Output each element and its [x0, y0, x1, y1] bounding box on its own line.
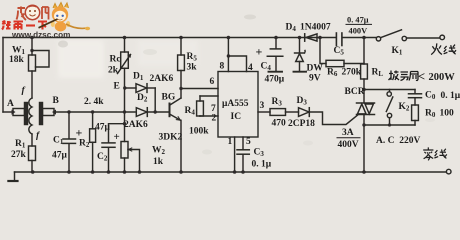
- svg-text:K2: K2: [399, 102, 410, 113]
- IC box U1: [218, 72, 258, 138]
- svg-text:www.dzsc.com: www.dzsc.com: [11, 31, 70, 40]
- wire BG collector: [180, 71, 182, 99]
- svg-text:9V: 9V: [309, 74, 321, 84]
- svg-text:6: 6: [210, 77, 215, 87]
- svg-text:27k: 27k: [11, 150, 27, 160]
- svg-text:270k: 270k: [342, 68, 362, 78]
- svg-text:5: 5: [246, 137, 251, 147]
- transducer B: [40, 103, 43, 125]
- wire R1 to rail: [31, 161, 33, 173]
- svg-text:D1: D1: [133, 72, 144, 83]
- svg-text:μA555: μA555: [222, 99, 249, 109]
- svg-text:100k: 100k: [189, 127, 209, 137]
- terminal neutral: [446, 169, 451, 174]
- diode D4: [304, 34, 306, 41]
- svg-text:0. 47μ: 0. 47μ: [347, 16, 369, 25]
- svg-text:R2: R2: [79, 139, 90, 150]
- resistor R3: [270, 109, 286, 116]
- svg-text:D4: D4: [286, 23, 297, 34]
- wire pin6: [181, 88, 218, 90]
- wire W1 column top: [31, 38, 33, 56]
- wire pin2 stub: [200, 115, 218, 117]
- svg-text:E: E: [114, 82, 120, 92]
- svg-text:470: 470: [272, 119, 287, 129]
- svg-text:R1: R1: [15, 139, 26, 150]
- svg-text:<: <: [418, 70, 425, 84]
- wire to live terminal: [407, 37, 440, 39]
- svg-text:200W: 200W: [429, 72, 456, 83]
- svg-text:K1: K1: [392, 46, 403, 57]
- wire pin8: [227, 38, 229, 72]
- svg-text:400V: 400V: [349, 27, 368, 36]
- fraction line 3A/400V: [337, 137, 361, 139]
- svg-text:C0: C0: [425, 91, 436, 102]
- wire pin4: [228, 56, 246, 72]
- wire BG emitter to rail: [180, 120, 182, 172]
- svg-text:C5: C5: [334, 46, 345, 57]
- svg-text:C3: C3: [254, 148, 265, 159]
- wire pin3: [258, 111, 270, 113]
- wire mid row right of D2: [147, 111, 169, 113]
- svg-text:IC: IC: [231, 112, 242, 122]
- svg-text:1N4007: 1N4007: [300, 23, 331, 33]
- diode D1: [125, 87, 137, 89]
- wire D3 to BCR gate: [309, 112, 357, 125]
- svg-text:C1: C1: [53, 136, 64, 147]
- svg-text:+: +: [114, 131, 120, 143]
- resistor R2: [92, 112, 94, 129]
- resistor Rc: [124, 38, 126, 53]
- capacitor C5: [335, 33, 337, 46]
- svg-text:RL: RL: [372, 68, 384, 79]
- terminal live: [440, 35, 445, 40]
- svg-text:+: +: [256, 45, 263, 59]
- svg-text:B: B: [53, 96, 60, 106]
- svg-text:47μ: 47μ: [52, 151, 68, 161]
- wire pin5: [242, 137, 244, 149]
- transistor BG: [169, 104, 171, 117]
- svg-text:2. 4k: 2. 4k: [84, 97, 104, 107]
- wire W1 to transducer: [31, 71, 33, 98]
- svg-text:R6: R6: [327, 68, 338, 79]
- hanzi huoxian (live wire): [431, 43, 456, 54]
- watermark weiku yixia red text: [2, 21, 47, 30]
- resistor R5: [180, 38, 182, 56]
- wire top rail: [3, 37, 336, 39]
- capacitor C3: [237, 149, 249, 151]
- svg-text:D3: D3: [297, 96, 308, 107]
- svg-text:7: 7: [211, 104, 216, 114]
- resistor RL: [363, 38, 365, 65]
- svg-text:C4: C4: [261, 62, 272, 73]
- svg-text:1: 1: [228, 137, 233, 147]
- svg-text:R0: R0: [425, 109, 436, 120]
- svg-text:4: 4: [248, 63, 253, 73]
- svg-text:18k: 18k: [9, 55, 25, 65]
- wire BCR bottom branch: [364, 124, 415, 126]
- svg-text:3k: 3k: [187, 63, 198, 73]
- watermark logo zhaopianpian: [17, 5, 49, 20]
- svg-text:3DK2: 3DK2: [159, 133, 183, 143]
- svg-text:D2: D2: [137, 93, 148, 104]
- svg-text:A: A: [7, 99, 14, 109]
- resistor R4: [199, 96, 201, 116]
- svg-text:BCR: BCR: [345, 87, 365, 97]
- svg-text:+: +: [76, 126, 83, 140]
- capacitor C2: [109, 124, 125, 143]
- wire top rail right of C5: [343, 37, 377, 39]
- svg-text:R3: R3: [272, 97, 283, 108]
- svg-text:W2: W2: [152, 146, 166, 157]
- switch K2 branch: [364, 89, 415, 91]
- resistor R0: [412, 105, 419, 121]
- transducer A: [13, 109, 25, 116]
- svg-text:8: 8: [220, 62, 225, 72]
- svg-text:2k: 2k: [108, 66, 119, 76]
- svg-text:400V: 400V: [338, 140, 359, 150]
- svg-text:R5: R5: [187, 52, 198, 63]
- diode D2: [136, 108, 147, 117]
- wire to transducer A: [3, 111, 13, 113]
- svg-text:3A: 3A: [342, 128, 354, 138]
- svg-text:Rc: Rc: [110, 55, 121, 65]
- svg-text:470μ: 470μ: [265, 75, 285, 85]
- hanzi huanqishan (ventilation fan): [389, 71, 419, 81]
- zener DW: [299, 38, 301, 53]
- resistor R6: [320, 38, 326, 64]
- resistor W1: [29, 55, 36, 71]
- svg-text:47μ: 47μ: [95, 123, 111, 133]
- svg-text:C2: C2: [97, 152, 108, 163]
- wire left border: [2, 38, 4, 113]
- svg-text:2: 2: [212, 114, 217, 124]
- svg-text:DW: DW: [307, 64, 324, 74]
- svg-text:0. 1μ: 0. 1μ: [252, 160, 272, 170]
- switch K1: [376, 37, 380, 41]
- wire Rc to E node: [124, 68, 126, 112]
- wire mid row: [56, 111, 136, 113]
- svg-text:2CP18: 2CP18: [288, 119, 315, 129]
- acoustic coupling f: [29, 98, 32, 134]
- capacitor C1: [68, 112, 70, 138]
- wire D1 down: [154, 88, 156, 112]
- capacitor C0: [414, 90, 416, 94]
- fraction line 0.47u/400V: [346, 23, 373, 25]
- svg-text:A. C 220V: A. C 220V: [376, 136, 420, 146]
- ground: [14, 172, 16, 181]
- svg-text:R4: R4: [185, 106, 196, 117]
- hanzi lingxian (neutral wire): [423, 147, 447, 160]
- wire to R1: [31, 134, 33, 146]
- diode D3: [299, 108, 310, 117]
- svg-text:0. 1μ: 0. 1μ: [441, 91, 460, 101]
- wire pin7 stub: [200, 95, 218, 97]
- watermark slash: [39, 19, 58, 28]
- watermark mascot: [51, 3, 90, 32]
- triac BCR: [357, 102, 375, 104]
- svg-text:1k: 1k: [153, 157, 164, 167]
- wire pin1: [234, 137, 236, 172]
- svg-text:2AK6: 2AK6: [150, 74, 174, 84]
- potentiometer W2: [124, 112, 126, 142]
- svg-text:3: 3: [260, 101, 265, 111]
- svg-text:BG: BG: [162, 93, 176, 103]
- svg-text:100: 100: [440, 109, 455, 119]
- wire bottom rail: [15, 171, 447, 173]
- resistor R1: [29, 146, 36, 161]
- svg-text:2AK6: 2AK6: [124, 120, 148, 130]
- capacitor C4: [275, 38, 277, 49]
